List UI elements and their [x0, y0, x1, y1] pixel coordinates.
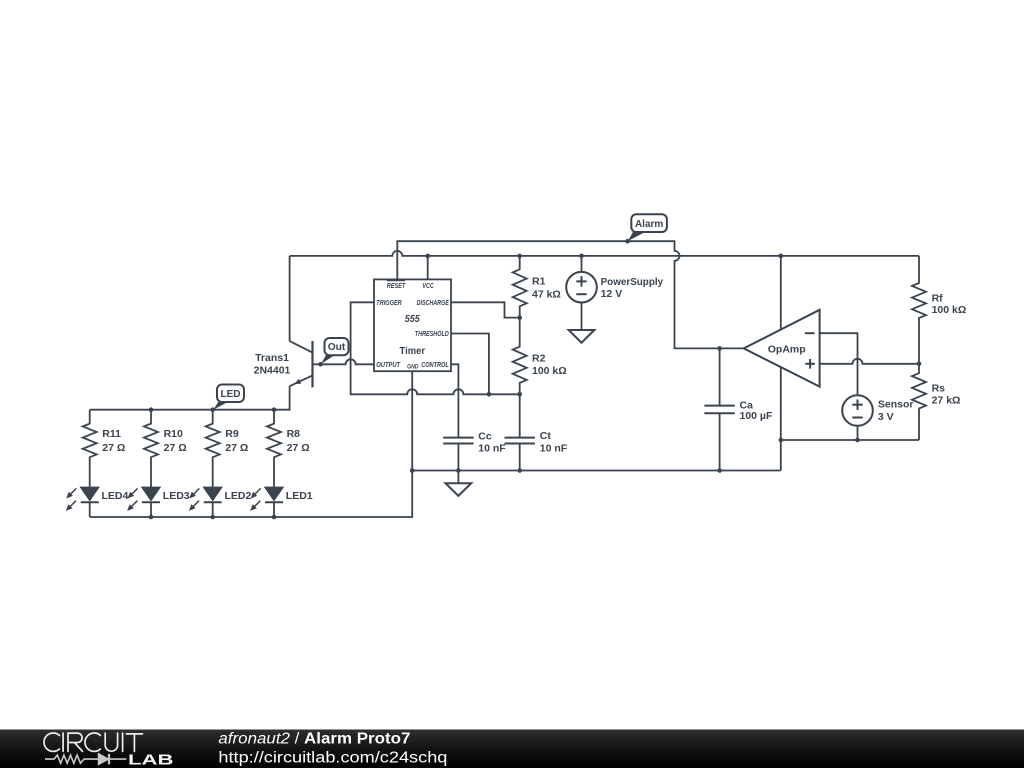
svg-text:100 kΩ: 100 kΩ [932, 304, 967, 316]
wire [289, 256, 291, 341]
555 timer U1 [374, 279, 451, 371]
wire [451, 334, 489, 395]
wire [519, 394, 521, 437]
svg-text:47 kΩ: 47 kΩ [532, 288, 561, 300]
svg-text:R11: R11 [102, 428, 121, 440]
LED LED1 [265, 487, 284, 501]
svg-text:2N4401: 2N4401 [254, 365, 291, 377]
svg-text:12 V: 12 V [601, 288, 623, 300]
svg-text:LED: LED [221, 388, 241, 400]
net flag LED [213, 401, 230, 410]
svg-text:R2: R2 [532, 352, 546, 364]
svg-text:LED1: LED1 [286, 490, 313, 502]
svg-text:27 Ω: 27 Ω [287, 442, 310, 454]
svg-text:R1: R1 [532, 276, 546, 288]
svg-text:R10: R10 [164, 428, 183, 440]
wire [427, 256, 429, 280]
svg-text:THRESHOLD: THRESHOLD [415, 329, 449, 338]
svg-text:10 nF: 10 nF [478, 442, 506, 454]
wire [451, 302, 520, 317]
wire [719, 348, 721, 405]
svg-text:PowerSupply: PowerSupply [601, 276, 664, 288]
svg-text:LED3: LED3 [163, 490, 190, 502]
svg-text:GND: GND [407, 364, 418, 371]
wire [581, 303, 583, 330]
junction node (427.7,255.9) [425, 254, 430, 259]
wire [820, 333, 858, 395]
junction node (458.4,470.5) [456, 468, 461, 473]
svg-text:Sensor: Sensor [878, 399, 914, 411]
svg-text:DISCHARGE: DISCHARGE [417, 298, 449, 307]
wire [820, 359, 919, 364]
svg-text:afronaut2 / Alarm Proto7: afronaut2 / Alarm Proto7 [218, 731, 410, 748]
junction node (412.2,470.5) [410, 468, 415, 473]
net flag Alarm [628, 231, 647, 241]
svg-text:3 V: 3 V [878, 411, 894, 423]
ground [569, 330, 595, 343]
junction node (627.6,241.2) [625, 239, 630, 244]
wire [719, 413, 721, 470]
svg-text:27 Ω: 27 Ω [225, 442, 248, 454]
svg-text:Rs: Rs [932, 383, 946, 395]
resistor R11 [83, 410, 97, 487]
capacitor Ct [505, 437, 535, 439]
svg-text:TRIGGER: TRIGGER [376, 298, 402, 307]
junction node (519.7,470.5) [517, 468, 522, 473]
resistor Rs [912, 364, 926, 440]
LED LED3 [142, 487, 161, 501]
junction node (274,517) [272, 515, 277, 520]
svg-text:Timer: Timer [400, 345, 426, 357]
svg-text:Ct: Ct [540, 430, 552, 442]
wire [412, 470, 781, 472]
svg-text:27 kΩ: 27 kΩ [932, 394, 961, 406]
wire [781, 439, 919, 441]
CircuitLab logo CIRCUIT [44, 733, 142, 751]
resistor R1 [513, 256, 527, 318]
svg-text:100 kΩ: 100 kΩ [532, 365, 567, 377]
svg-text:555: 555 [405, 314, 420, 325]
svg-text:RESET: RESET [387, 281, 406, 290]
resistor R2 [513, 318, 527, 395]
svg-text:Cc: Cc [478, 431, 492, 443]
wire [397, 241, 743, 348]
junction node (519.7,394.3) [517, 392, 522, 397]
wire [457, 444, 459, 484]
op-amp U2 [744, 310, 820, 387]
power supply V1 [566, 272, 597, 303]
svg-text:LAB: LAB [128, 752, 174, 768]
svg-text:27 Ω: 27 Ω [102, 442, 125, 454]
svg-text:http://circuitlab.com/c24schq: http://circuitlab.com/c24schq [218, 749, 447, 766]
junction node (488.9,394.3) [487, 392, 492, 397]
wire [351, 302, 520, 394]
resistor R10 [144, 410, 158, 487]
capacitor Cc [443, 437, 473, 439]
wire [90, 386, 290, 410]
voltage source Sensor [842, 395, 873, 426]
resistor R9 [206, 410, 220, 487]
junction node (212.7,517) [210, 515, 215, 520]
resistor Rf [912, 256, 926, 364]
junction node (320.6,364.3) [318, 362, 323, 367]
junction node (581.5,255.9) [579, 254, 584, 259]
junction node (519.7,255.9) [517, 254, 522, 259]
wire [780, 256, 782, 471]
junction node (919,363.8) [917, 362, 922, 367]
svg-text:R9: R9 [225, 428, 239, 440]
footer bar [0, 730, 1024, 768]
svg-text:27 Ω: 27 Ω [164, 442, 187, 454]
svg-text:Out: Out [328, 341, 346, 353]
svg-text:VCC: VCC [422, 281, 434, 290]
junction node (780.8,255.9) [779, 254, 784, 259]
wire [519, 444, 521, 471]
svg-text:OpAmp: OpAmp [768, 344, 806, 356]
svg-text:Alarm: Alarm [635, 218, 663, 230]
wire [90, 371, 413, 517]
ground [446, 483, 472, 496]
svg-text:100 µF: 100 µF [740, 410, 773, 422]
svg-text:R8: R8 [287, 428, 301, 440]
svg-text:OUTPUT: OUTPUT [376, 360, 400, 369]
junction node (719.6,470.5) [717, 468, 722, 473]
wire [313, 359, 375, 364]
wire [290, 251, 919, 256]
junction node (212.7,409.7) [210, 407, 215, 412]
wire [857, 426, 859, 440]
net flag Out [321, 354, 336, 364]
svg-text:Rf: Rf [932, 292, 944, 304]
transistor Q1 Trans1 2N4401 [311, 341, 313, 387]
junction node (151,409.7) [149, 407, 154, 412]
capacitor Ca [704, 405, 734, 407]
LED LED4 [80, 487, 99, 501]
svg-text:LED4: LED4 [102, 490, 129, 502]
logo resistor-diode icon [45, 754, 126, 764]
svg-text:Trans1: Trans1 [255, 352, 289, 364]
svg-text:10 nF: 10 nF [540, 442, 568, 454]
junction node (519.7,317.6) [517, 315, 522, 320]
wire [451, 364, 458, 437]
svg-text:CONTROL: CONTROL [421, 360, 449, 369]
junction node (780.8,440) [779, 438, 784, 443]
junction node (857.5,440) [855, 438, 860, 443]
resistor R8 [267, 410, 281, 487]
junction node (274,409.7) [272, 407, 277, 412]
junction node (151,517) [149, 515, 154, 520]
wire [581, 256, 583, 272]
svg-text:LED2: LED2 [225, 490, 252, 502]
junction node (719.6,348.4) [717, 346, 722, 351]
LED LED2 [203, 487, 222, 501]
